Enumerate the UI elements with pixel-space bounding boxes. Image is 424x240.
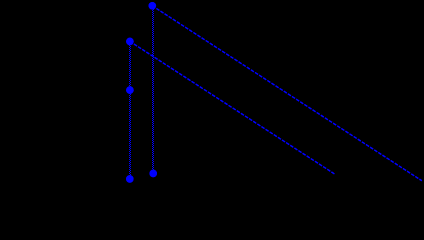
worldline V2 (dotted vertical at x~130 from event 2 to event 4) <box>129 41 131 179</box>
event dot 3 (middle, on worldline V2) <box>126 86 134 94</box>
worldline V1 (dotted vertical at x~152.9 from event 1 to event 5) <box>152 6 154 174</box>
event dot 5 (bottom, on worldline V1) <box>149 170 157 178</box>
event dot 1 (top, on worldline V1) <box>149 2 157 10</box>
signal line B (dashed diagonal from event 2 ending mid lower right) <box>130 41 335 174</box>
event dot 2 (upper, on worldline V2) <box>126 38 134 46</box>
signal line A (dashed diagonal from event 1 to lower right edge) <box>152 6 422 181</box>
event dot 4 (bottom, on worldline V2) <box>126 175 134 183</box>
